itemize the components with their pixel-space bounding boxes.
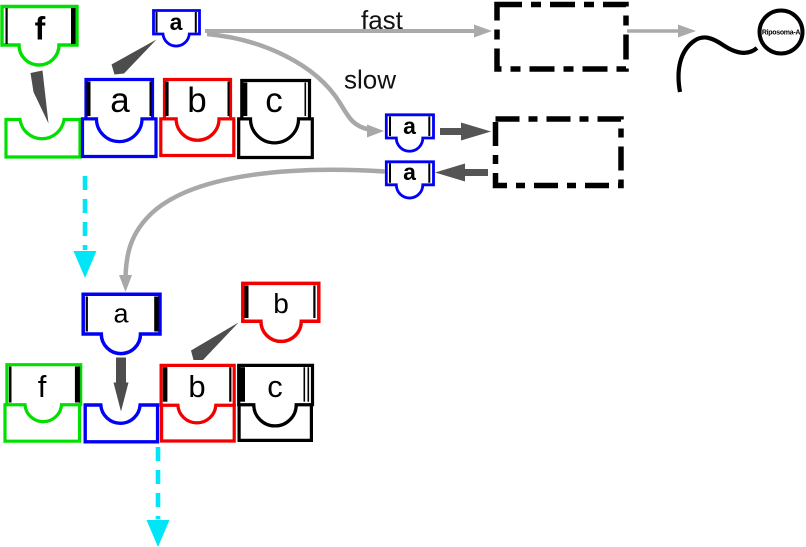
box degradation 2 (dashed, middle) xyxy=(496,119,622,186)
socket green empty (row 1) xyxy=(6,120,80,158)
svg-text:c: c xyxy=(267,369,283,404)
svg-text:a: a xyxy=(113,299,129,329)
tile a medium floating (bottom cluster) xyxy=(83,294,160,353)
arrow slow (light gray curve) xyxy=(207,34,384,138)
ribosome circle xyxy=(760,11,803,54)
socket blue empty (bottom) xyxy=(85,405,157,442)
tile a small (middle row lower) xyxy=(386,159,433,198)
svg-text:c: c xyxy=(265,81,283,120)
arrow box1 to ribosome (light gray) xyxy=(627,25,696,38)
svg-text:a: a xyxy=(403,159,416,185)
arrow fast (light gray straight) xyxy=(205,25,492,38)
svg-text:Riposoma-A: Riposoma-A xyxy=(762,30,800,37)
arrow cyan dashed 1 (top) xyxy=(74,176,97,278)
squiggle mRNA line to ribosome xyxy=(679,37,757,92)
tile f floating (top-left green plug) xyxy=(2,7,77,66)
arrow a-block to small a (dark tapered, up-right) xyxy=(112,40,157,75)
tile a small (middle row upper) xyxy=(386,113,433,151)
arrow box2 to a (dark, left) xyxy=(435,164,488,182)
block a assembled (row 1, blue) xyxy=(83,80,157,157)
svg-text:a: a xyxy=(110,81,130,120)
svg-text:f: f xyxy=(35,11,46,47)
arrow b diagonal (dark tapered, up-right) xyxy=(191,323,239,361)
arrow a down into socket (dark) xyxy=(114,358,129,412)
svg-text:a: a xyxy=(170,9,183,35)
arrow cyan dashed 2 (bottom) xyxy=(147,447,170,547)
svg-text:slow: slow xyxy=(344,65,396,95)
block b assembled (row 1, red) xyxy=(161,80,234,156)
svg-text:b: b xyxy=(273,288,289,319)
svg-text:f: f xyxy=(38,369,47,404)
arrow a to box2 (dark, right) xyxy=(440,123,491,141)
arrow f to socket (dark tapered) xyxy=(31,71,49,124)
svg-text:b: b xyxy=(187,81,206,120)
block b assembled (bottom, red) xyxy=(161,365,234,441)
block f assembled (bottom, green) xyxy=(5,365,81,442)
block c assembled (row 1, black) xyxy=(239,81,313,158)
box degradation 1 (dashed, top) xyxy=(497,5,626,70)
tile a small floating (top) xyxy=(154,9,200,46)
block c assembled (bottom, black) xyxy=(239,365,313,440)
svg-text:b: b xyxy=(188,369,205,404)
arrow recycle curve (light gray, a to bottom cluster) xyxy=(119,170,385,292)
svg-text:a: a xyxy=(403,113,416,139)
tile b floating (bottom cluster, red) xyxy=(243,283,319,341)
